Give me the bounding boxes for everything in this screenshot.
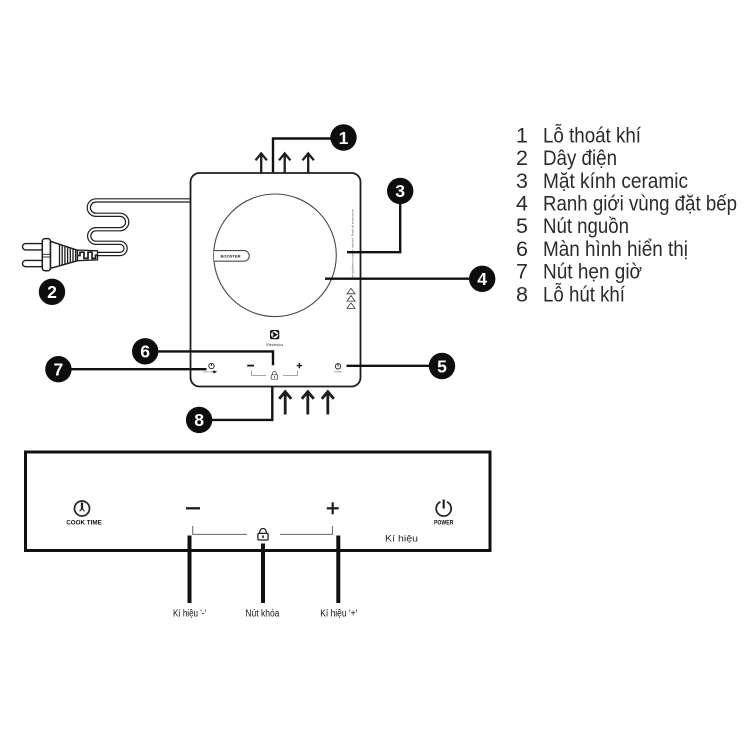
svg-text:Nút khóa: Nút khóa (245, 609, 279, 620)
control panel rect (26, 452, 491, 551)
panel plus (327, 507, 339, 509)
cooking zone circle (214, 194, 337, 317)
svg-text:3: 3 (395, 181, 405, 201)
cooktop lock icon (271, 371, 277, 379)
svg-text:Nút nguồn: Nút nguồn (543, 214, 629, 238)
panel power icon (436, 500, 451, 517)
svg-text:1: 1 (516, 123, 528, 147)
booster tab (214, 251, 249, 262)
plug prong lower (23, 260, 44, 266)
callout 6 (132, 338, 158, 364)
panel bracket (193, 526, 247, 534)
callout 3 (387, 178, 413, 204)
svg-text:COOK TIME: COOK TIME (66, 520, 102, 527)
plug ribs (60, 245, 76, 266)
pointer line plus (336, 536, 340, 604)
svg-text:4: 4 (477, 269, 487, 289)
svg-text:Mặt kính ceramic: Mặt kính ceramic (543, 169, 688, 193)
svg-text:1: 1 (339, 128, 349, 148)
svg-text:This appliance must be earthed: This appliance must be earthed. Read all… (351, 208, 355, 280)
pointer line lock (261, 544, 265, 604)
callout 7 (45, 356, 71, 382)
plug cone body (51, 241, 78, 268)
svg-text:POWER: POWER (434, 521, 454, 527)
bottom labels (173, 609, 357, 620)
line 8 (199, 387, 272, 420)
svg-text:5: 5 (516, 214, 528, 238)
svg-text:8: 8 (516, 282, 528, 306)
svg-text:7: 7 (516, 260, 528, 284)
svg-text:Kí hiệu '-': Kí hiệu '-' (173, 609, 206, 620)
svg-text:BOOSTER: BOOSTER (221, 254, 241, 259)
svg-text:COOK TIME: COOK TIME (203, 371, 214, 373)
line 7 (58, 368, 207, 370)
plug face plate (42, 239, 50, 271)
line 1 (273, 139, 344, 173)
callout circles (39, 124, 496, 433)
callout 4 (469, 266, 495, 292)
panel timer icon (75, 501, 90, 516)
line 5 (347, 365, 443, 367)
callout 8 (186, 407, 212, 433)
svg-text:2: 2 (47, 282, 57, 302)
cooktop bracket (252, 371, 267, 376)
cooktop plus (297, 365, 302, 367)
plug prong upper (23, 244, 44, 250)
svg-text:4: 4 (516, 192, 528, 216)
plug strain relief meander (78, 250, 98, 261)
svg-text:Electrolux: Electrolux (266, 343, 283, 347)
svg-text:6: 6 (140, 342, 150, 362)
svg-text:Lỗ thoát khí: Lỗ thoát khí (543, 122, 641, 147)
svg-text:6: 6 (516, 237, 528, 261)
svg-text:Dây điện: Dây điện (543, 146, 617, 170)
cooktop power icon (334, 363, 342, 373)
legend list (516, 122, 737, 306)
svg-text:8: 8 (194, 410, 204, 430)
svg-text:POWER: POWER (334, 371, 342, 373)
power cord serpentine (89, 200, 191, 254)
svg-text:7: 7 (54, 360, 64, 380)
panel lock icon (258, 529, 268, 541)
panel minus (186, 507, 200, 509)
cooktop timer icon (203, 363, 217, 373)
callout 1 (330, 124, 356, 150)
callout 5 (429, 353, 455, 379)
cooktop minus (247, 365, 254, 367)
warning triangles (347, 288, 355, 308)
cooktop body (191, 173, 361, 387)
callout lines (58, 139, 482, 420)
svg-text:5: 5 (437, 356, 447, 376)
line 3 (347, 191, 400, 252)
Electrolux logo (270, 330, 279, 339)
top vent arrows (256, 153, 314, 172)
pointer line minus (188, 536, 192, 604)
bottom intake arrows (279, 392, 334, 415)
svg-text:Kí hiệu: Kí hiệu (385, 533, 418, 544)
svg-text:2: 2 (516, 146, 528, 170)
line 6 (145, 351, 273, 365)
svg-text:3: 3 (516, 169, 528, 193)
line 4 (325, 278, 482, 280)
callout 2 (39, 279, 65, 305)
svg-text:Ranh giới vùng đặt bếp: Ranh giới vùng đặt bếp (543, 192, 737, 216)
svg-text:Kí hiệu '+': Kí hiệu '+' (320, 609, 357, 620)
svg-text:Màn hình hiển thị: Màn hình hiển thị (543, 237, 688, 261)
svg-text:Lỗ hút khí: Lỗ hút khí (543, 281, 625, 306)
svg-text:Nút hẹn giờ: Nút hẹn giờ (543, 260, 642, 284)
